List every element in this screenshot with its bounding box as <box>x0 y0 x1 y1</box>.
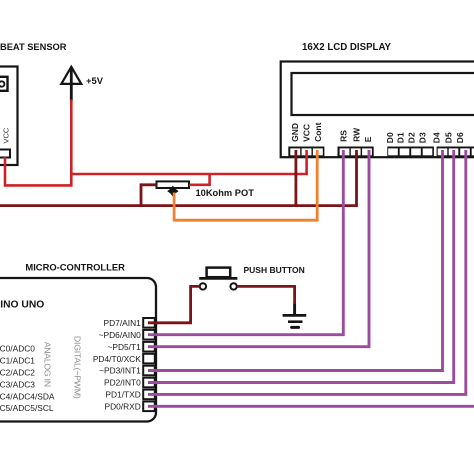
push button S1 <box>199 268 237 290</box>
svg-text:D4: D4 <box>431 132 441 143</box>
LCD pin strip RS RW E <box>338 147 374 158</box>
+5V power symbol <box>61 67 103 101</box>
svg-text:+5V: +5V <box>86 75 104 86</box>
svg-text:VCC: VCC <box>301 124 311 142</box>
wire ground rail to LCD RW <box>0 150 357 206</box>
Arduino Uno U3 <box>0 278 156 422</box>
svg-text:PC4/ADC4/SDA: PC4/ADC4/SDA <box>0 391 55 401</box>
svg-text:D5: D5 <box>443 132 453 143</box>
svg-text:GND: GND <box>290 123 300 142</box>
svg-text:PD1/TXD: PD1/TXD <box>105 390 140 400</box>
svg-text:PC3/ADC3: PC3/ADC3 <box>0 379 35 389</box>
potentiometer R1 10Kohm POT <box>157 181 190 196</box>
svg-text:ARDUINO UNO: ARDUINO UNO <box>0 300 44 311</box>
svg-text:PD2/INT0: PD2/INT0 <box>104 378 141 388</box>
svg-text:D1: D1 <box>396 132 406 143</box>
svg-text:VCC: VCC <box>2 127 11 143</box>
svg-text:~PD6/AIN0: ~PD6/AIN0 <box>99 330 141 340</box>
svg-text:HEARTBEAT SENSOR: HEARTBEAT SENSOR <box>0 42 67 52</box>
svg-text:~PD5/T1: ~PD5/T1 <box>108 342 142 352</box>
svg-text:D0: D0 <box>385 132 395 143</box>
wire LCD GND to ground rail <box>294 150 297 206</box>
svg-text:PC1/ADC1: PC1/ADC1 <box>0 356 35 366</box>
wire purple PD5 to LCD E <box>148 150 369 347</box>
ground symbol <box>283 303 307 327</box>
wire orange LCD Cont to POT wiper <box>174 150 317 220</box>
svg-text:PUSH BUTTON: PUSH BUTTON <box>244 265 305 275</box>
wire PD7 to push button left terminal <box>148 286 200 322</box>
wire purple PD1 to LCD D6 <box>148 150 466 394</box>
svg-text:ANALOG IN: ANALOG IN <box>43 342 53 387</box>
svg-text:D6: D6 <box>455 132 465 143</box>
svg-text:~PD3/INT1: ~PD3/INT1 <box>99 366 141 376</box>
svg-text:Cont: Cont <box>313 122 323 142</box>
heartbeat sensor module <box>0 67 18 166</box>
16x2 LCD display U2 <box>281 62 474 158</box>
wire red sensor to +5V node <box>5 100 71 186</box>
wire red +5V rail to LCD VCC <box>71 150 306 174</box>
svg-text:PC5/ADC5/SCL: PC5/ADC5/SCL <box>0 403 54 413</box>
wire purple PD2 to LCD D5 <box>148 150 454 383</box>
svg-text:D3: D3 <box>417 132 427 143</box>
LCD pin strip D4-D7 <box>437 147 474 158</box>
svg-text:DIGITAL(~PWM): DIGITAL(~PWM) <box>73 336 83 399</box>
svg-text:PD0/RXD: PD0/RXD <box>104 402 140 412</box>
svg-text:PD4/T0/XCK: PD4/T0/XCK <box>93 354 141 364</box>
LCD pin strip GND VCC Cont <box>288 147 324 158</box>
svg-text:PC2/ADC2: PC2/ADC2 <box>0 368 35 378</box>
Arduino pin header boxes <box>143 318 155 411</box>
svg-text:RS: RS <box>339 130 349 142</box>
svg-text:PD7/AIN1: PD7/AIN1 <box>104 318 142 328</box>
wire ground rail to POT left terminal <box>141 185 157 206</box>
svg-text:16X2 LCD DISPLAY: 16X2 LCD DISPLAY <box>302 42 392 53</box>
svg-text:D2: D2 <box>407 132 417 143</box>
LCD pin strip D0-D3 <box>387 147 434 158</box>
wire red rail to POT right terminal <box>189 174 209 185</box>
wire purple PD6 to LCD RS <box>148 150 343 335</box>
wire purple PD0 to LCD D7 offscreen <box>148 405 474 408</box>
svg-text:E: E <box>363 136 373 142</box>
wire push button right terminal to ground <box>237 286 295 304</box>
svg-text:RW: RW <box>352 127 362 142</box>
svg-text:10Kohm POT: 10Kohm POT <box>196 188 255 198</box>
wire purple PD3 to LCD D4 <box>148 150 443 371</box>
svg-text:PC0/ADC0: PC0/ADC0 <box>0 344 35 354</box>
svg-text:MICRO-CONTROLLER: MICRO-CONTROLLER <box>25 262 125 273</box>
